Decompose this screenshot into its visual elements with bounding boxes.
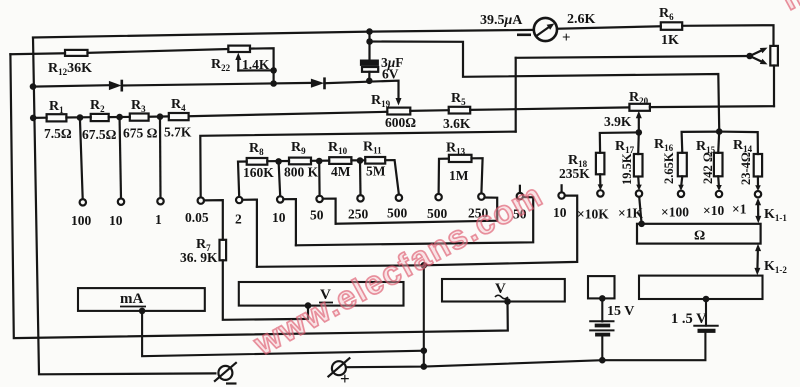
svg-text:2: 2 bbox=[235, 212, 242, 227]
svg-text:V: V bbox=[495, 281, 506, 297]
wire x1K contact to ohm box bbox=[639, 197, 641, 224]
wire contact lead 100 bbox=[80, 121, 83, 200]
svg-text:0.05: 0.05 bbox=[185, 210, 209, 225]
diode D2 bbox=[311, 79, 324, 88]
wire vertical A (left outer) to bottom bus to AC V box bbox=[10, 54, 507, 338]
svg-text:5.7K: 5.7K bbox=[164, 125, 192, 140]
svg-text:500: 500 bbox=[427, 206, 448, 221]
svg-text:675 Ω: 675 Ω bbox=[123, 126, 158, 141]
wire contact lead 1 bbox=[159, 120, 162, 198]
node R20 wiper / R17 top bbox=[636, 129, 643, 136]
diode D1 bbox=[109, 81, 122, 90]
svg-text:1: 1 bbox=[155, 212, 162, 227]
svg-text:242 Ω: 242 Ω bbox=[701, 152, 715, 184]
switch contact 500v bbox=[396, 195, 402, 201]
wire R19 wiper arrow bbox=[396, 98, 402, 106]
terminal minus bbox=[218, 366, 232, 380]
wire contact lead 10 bbox=[120, 120, 121, 198]
wire R11 right to contact 500v bbox=[385, 160, 399, 194]
wire R18 top lead bbox=[600, 132, 639, 152]
svg-text:1K: 1K bbox=[661, 33, 679, 48]
svg-text:4M: 4M bbox=[331, 164, 351, 179]
wire R17 top lead bbox=[637, 132, 640, 154]
svg-text:R1236K: R1236K bbox=[48, 61, 92, 77]
node K1-2 tap bbox=[703, 296, 710, 303]
wire 10ac stub bbox=[560, 185, 562, 192]
switch contact 250v bbox=[357, 195, 363, 201]
svg-text:600Ω: 600Ω bbox=[385, 115, 416, 130]
svg-text:19.5K: 19.5K bbox=[620, 153, 634, 185]
svg-text:50: 50 bbox=[310, 208, 324, 223]
svg-text:2.65K: 2.65K bbox=[662, 152, 676, 184]
meter M 39.5uA bbox=[534, 18, 557, 41]
switch contact x100 bbox=[678, 191, 684, 197]
ohm sector box bbox=[637, 224, 761, 244]
wire R5 to R20 bbox=[470, 107, 629, 110]
wire vertical B (left inner) to minus terminal bbox=[33, 38, 215, 375]
capacitor C1 3uF top lead bbox=[368, 32, 370, 61]
mA sector box bbox=[78, 288, 205, 311]
svg-text:1.4K: 1.4K bbox=[242, 57, 270, 72]
battery B1 15V bbox=[601, 298, 603, 321]
resistor R5 3.6K bbox=[449, 107, 471, 114]
wire D1 to D2 bbox=[122, 83, 311, 86]
wire R12 to R22 bbox=[88, 49, 229, 53]
resistor R11 5M bbox=[365, 157, 385, 164]
wire plus terminal to battery bus bbox=[346, 331, 705, 367]
label terminal minus sign bbox=[226, 382, 237, 384]
svg-text:10: 10 bbox=[553, 205, 567, 220]
switch contact x1K bbox=[636, 190, 642, 196]
node 15V box tap bbox=[599, 295, 606, 302]
wire W1b cap junction to meter-minus path bbox=[370, 42, 720, 129]
wire R6 to top-right corner bbox=[682, 25, 773, 46]
resistor R13 1M bbox=[449, 155, 472, 162]
wire R15 bottom lead bbox=[717, 176, 720, 188]
svg-text:7.5Ω: 7.5Ω bbox=[44, 126, 72, 141]
wire vertical meter-minus branch x=515.7 bbox=[515, 58, 517, 132]
node R22 wiper junction bbox=[270, 67, 277, 74]
wire R10-R11 bbox=[351, 159, 365, 161]
wire R16 top lead to ohm node bbox=[682, 132, 720, 153]
wire meter to R6 bbox=[557, 26, 661, 28]
node cap-top junction on W1 bbox=[366, 28, 373, 35]
node R10-R11 to contact 250v bbox=[357, 157, 364, 164]
wire W1 top bus left of meter bbox=[33, 30, 534, 38]
svg-text:6V: 6V bbox=[382, 67, 399, 82]
svg-text:36. 9K: 36. 9K bbox=[180, 250, 218, 265]
wire wiper arrow upper bbox=[750, 50, 764, 57]
switch contact 2 bbox=[236, 197, 242, 203]
svg-text:×1K: ×1K bbox=[618, 206, 643, 221]
switch contact 250ac bbox=[478, 193, 484, 199]
switch contact 50ac bbox=[517, 193, 523, 199]
wire W2 from left vertical through R12 R22 bbox=[10, 52, 65, 55]
wire R14 bottom lead bbox=[757, 177, 759, 189]
V AC sector box bbox=[442, 279, 565, 302]
wire R20 to pot bottom bbox=[650, 105, 774, 108]
V DC sector box bbox=[239, 282, 404, 306]
wire 10v hook down to bus245 bbox=[283, 199, 296, 245]
wire bus265 to 10AC contact bbox=[257, 196, 577, 267]
wire R1-R2 bbox=[66, 116, 90, 119]
node W5 left end bbox=[30, 115, 37, 122]
wire wiper arrow lower bbox=[750, 56, 764, 63]
resistor R14 23.4ohm bbox=[754, 154, 762, 177]
resistor R8 160K bbox=[247, 158, 268, 165]
wire W3 diode bus bbox=[33, 85, 109, 86]
wire R8-R9 bbox=[267, 160, 289, 162]
svg-text:10: 10 bbox=[109, 213, 123, 228]
switch contact 50v bbox=[316, 196, 322, 202]
wire W4 long bus to 0.05 contact bbox=[200, 132, 515, 198]
wire bus223 to 250-2 contact bbox=[336, 198, 498, 224]
switch contact 10ac bbox=[558, 192, 564, 198]
svg-text:250: 250 bbox=[348, 207, 369, 222]
resistor R12 36K bbox=[65, 50, 88, 56]
15V sector box bbox=[588, 276, 615, 298]
wire R3-R4 bbox=[149, 115, 169, 117]
node mA tap bbox=[139, 308, 146, 315]
wire R13 right lead to contact 250ac bbox=[472, 158, 483, 193]
wire K1-1 double arrow bbox=[757, 204, 759, 218]
wire R4 to R19 bbox=[189, 112, 388, 116]
capacitor C1 bottom lead bbox=[368, 72, 370, 81]
svg-text:15 V: 15 V bbox=[607, 304, 634, 319]
wire R13 left lead to contact 500ac bbox=[439, 159, 449, 194]
wire 50v hook down to bus223 bbox=[323, 199, 336, 224]
wire pot bottom down to R20 line bbox=[773, 66, 775, 107]
resistor R2 67.5 ohm bbox=[91, 114, 109, 121]
svg-text:×10: ×10 bbox=[703, 203, 724, 218]
resistor R18 235K bbox=[596, 153, 605, 175]
resistor R16 2.65K bbox=[678, 153, 687, 177]
wire 2 hook down to bus265 bbox=[242, 200, 257, 267]
svg-text:mA: mA bbox=[120, 291, 143, 307]
switch contact 500ac bbox=[435, 194, 441, 200]
svg-text:235K: 235K bbox=[559, 166, 590, 181]
svg-text:800 K: 800 K bbox=[284, 165, 319, 180]
node mA wire on x424 bbox=[421, 347, 428, 354]
node V AC tap bbox=[504, 298, 511, 305]
resistor R22 (preset) bbox=[228, 46, 250, 52]
wire R22 wiper horizontal bbox=[238, 69, 273, 71]
wire R2-R3 bbox=[109, 116, 130, 118]
wire D2 to R19 wiper corner bbox=[325, 81, 399, 100]
wire vertical bus x424 bbox=[423, 265, 425, 366]
svg-text:3.6K: 3.6K bbox=[443, 116, 471, 131]
wire R18 bottom lead bbox=[599, 174, 602, 187]
potentiometer R19 600ohm bbox=[387, 108, 410, 115]
wire W5 left segment bbox=[33, 117, 46, 119]
wire R16 bottom lead bbox=[681, 176, 682, 187]
switch contact 1 bbox=[157, 198, 163, 204]
wire R19 to R5 bbox=[410, 109, 448, 112]
svg-text:160K: 160K bbox=[243, 165, 274, 180]
potentiometer R20 3.9K bbox=[629, 104, 650, 111]
svg-text:3.9K: 3.9K bbox=[604, 114, 632, 129]
switch contact 10 bbox=[118, 199, 124, 205]
resistor R1 7.5 ohm bbox=[47, 114, 67, 121]
switch contact 0.05 bbox=[198, 197, 204, 203]
wire wiper line from node to pot bbox=[516, 56, 750, 58]
wire R14 top lead to ohm node bbox=[719, 132, 758, 154]
resistor R7 36.9K bbox=[220, 240, 227, 260]
resistor R4 5.7K bbox=[169, 113, 189, 120]
svg-text:23-4Ω: 23-4Ω bbox=[739, 152, 753, 185]
svg-text:Ω: Ω bbox=[694, 229, 705, 244]
svg-text:500: 500 bbox=[387, 206, 408, 221]
node ohm-bank top junction bbox=[716, 128, 723, 135]
switch contact 100 bbox=[80, 199, 86, 205]
node bus265 x424 bbox=[421, 262, 428, 269]
switch contact x1 bbox=[755, 191, 761, 197]
wire R17 bottom lead bbox=[637, 177, 640, 188]
svg-text:+: + bbox=[562, 30, 571, 46]
resistor R15 242ohm bbox=[714, 153, 723, 177]
node bottom bus on x424 bbox=[421, 363, 428, 370]
switch contact x10K bbox=[597, 190, 603, 196]
node R22 bottom junction on W3 bbox=[270, 80, 277, 87]
svg-text:2.6K: 2.6K bbox=[567, 12, 596, 27]
svg-text:5M: 5M bbox=[366, 164, 386, 179]
svg-text:×100: ×100 bbox=[661, 205, 689, 220]
switch contact 10v bbox=[277, 196, 283, 202]
wire K1-2 arrow bbox=[756, 249, 759, 270]
wire 50ac stub bbox=[519, 186, 521, 193]
node W3 left end on vertical B bbox=[30, 83, 37, 90]
label meter minus bbox=[517, 33, 531, 36]
node wiper junction bbox=[746, 53, 753, 60]
potentiometer (right edge) bbox=[770, 46, 778, 66]
wire R22 wiper arrow bbox=[237, 58, 239, 71]
wire R20 wiper arrow up from ohm-adjust node bbox=[638, 117, 640, 133]
svg-text:1M: 1M bbox=[449, 168, 469, 183]
svg-text:1 .5 V: 1 .5 V bbox=[671, 311, 707, 327]
node W3 cap junction bbox=[366, 78, 373, 85]
terminal plus bbox=[332, 361, 346, 375]
node R8-R9 to contact 10v bbox=[275, 158, 282, 165]
wire bus245 to 50-2 contact bbox=[296, 197, 533, 245]
wire R15 top lead through ohm node bbox=[718, 132, 719, 153]
svg-text:10: 10 bbox=[272, 210, 286, 225]
resistor R9 800K bbox=[289, 158, 311, 165]
wire R8 left lead to contact 2 bbox=[238, 162, 247, 197]
svg-text:67.5Ω: 67.5Ω bbox=[82, 127, 117, 142]
resistor R3 675 ohm bbox=[130, 114, 149, 121]
resistor R17 19.5K bbox=[634, 154, 643, 177]
battery B2 1.5V bbox=[705, 299, 707, 326]
wire 0.05 hook to R7 bbox=[204, 200, 223, 240]
node battery bus junction bbox=[599, 357, 606, 364]
wire R9-R10 bbox=[311, 160, 329, 162]
node R9-R10 to contact 50v bbox=[316, 158, 323, 165]
node V tap bbox=[305, 302, 312, 309]
node ohm box tap bbox=[638, 221, 645, 228]
svg-text:+: + bbox=[340, 369, 350, 387]
resistor R6 1K bbox=[661, 22, 682, 30]
svg-text:39.5μA: 39.5μA bbox=[480, 13, 523, 28]
switch contact x10 bbox=[716, 191, 722, 197]
resistor R10 4M bbox=[329, 157, 351, 164]
wire mA tap to node424 bbox=[142, 311, 424, 356]
svg-text:×1: ×1 bbox=[732, 202, 747, 217]
svg-text:×10K: ×10K bbox=[577, 207, 609, 222]
capacitor C1 plates bbox=[361, 61, 378, 65]
node W1b branch on cap lead bbox=[366, 38, 373, 45]
K1-2 sector box bbox=[639, 276, 763, 299]
wire R7 bottom to V box tap bbox=[223, 260, 308, 320]
wire R22 right side down to W3 bbox=[250, 48, 274, 83]
svg-text:100: 100 bbox=[71, 213, 92, 228]
